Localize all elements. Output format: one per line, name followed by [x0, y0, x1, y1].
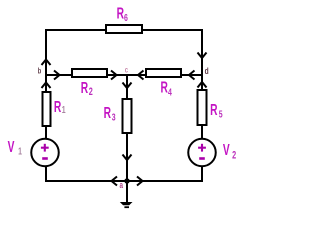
wire R2 to node c — [107, 74, 128, 76]
resistor R4 — [146, 69, 181, 77]
arrow left on bottom rail — [112, 177, 118, 186]
svg-text:R: R — [210, 101, 218, 119]
label R6 — [117, 5, 128, 24]
svg-text:V: V — [8, 138, 15, 156]
label R3 — [104, 104, 116, 123]
wire V2 to bottom rail — [201, 166, 203, 182]
svg-text:b: b — [38, 68, 41, 76]
node label a — [120, 180, 124, 190]
resistor R3 — [123, 99, 132, 133]
wire node d to R5 — [201, 74, 203, 90]
arrow up above node b — [42, 60, 51, 66]
svg-text:c: c — [125, 64, 128, 74]
arrow down below R3 — [123, 155, 132, 161]
resistor R5 — [198, 90, 207, 125]
source V1 — [31, 139, 59, 167]
arrow right after node b — [54, 71, 60, 80]
label V2 — [223, 141, 236, 161]
label R5 — [210, 101, 223, 120]
wire V1 to bottom rail — [45, 166, 47, 182]
svg-text:4: 4 — [168, 86, 172, 98]
arrow right on bottom rail — [137, 177, 143, 186]
svg-text:R: R — [117, 5, 125, 23]
ground — [120, 202, 133, 205]
svg-text:R: R — [161, 78, 169, 96]
arrow down on right vertical — [198, 53, 207, 59]
svg-text:d: d — [205, 66, 209, 76]
wire R3 to node a — [126, 133, 128, 181]
label R2 — [81, 79, 93, 97]
svg-text:1: 1 — [18, 145, 22, 157]
wire left vertical top — [45, 29, 47, 76]
node label c — [125, 64, 128, 74]
svg-text:a: a — [120, 180, 124, 190]
wire node b to R2 — [45, 74, 72, 76]
label R1 — [54, 98, 66, 116]
arrow left toward node d — [189, 71, 195, 80]
wire bottom rail — [45, 180, 203, 182]
label V1 — [8, 138, 22, 157]
svg-text:2: 2 — [89, 85, 93, 97]
resistor R2 — [72, 69, 107, 77]
svg-text:R: R — [81, 79, 89, 97]
wire R5 to V2 — [201, 125, 203, 139]
node a junction dot — [124, 178, 129, 183]
svg-text:2: 2 — [232, 149, 236, 161]
resistor R6 — [106, 25, 142, 33]
node label b — [38, 68, 41, 76]
arrow up below node d — [198, 82, 207, 88]
svg-text:R: R — [54, 98, 62, 116]
wire R1 to V1 — [45, 126, 47, 139]
svg-text:5: 5 — [219, 108, 223, 120]
wire top horizontal left segment — [45, 29, 106, 31]
wire node b to R1 — [45, 74, 47, 92]
wire node c to R3 — [126, 74, 128, 99]
arrow right before node c — [111, 71, 117, 80]
arrow down below node c — [123, 83, 132, 89]
wire node c to R4 — [126, 74, 146, 76]
svg-text:V: V — [223, 141, 230, 159]
source V2 — [188, 139, 216, 167]
node label d — [205, 66, 209, 76]
wire right vertical top — [201, 29, 203, 76]
label R4 — [161, 78, 172, 98]
wire node a to ground — [126, 180, 128, 202]
wire top horizontal right segment — [142, 29, 203, 31]
wire R4 to node d — [181, 74, 203, 76]
resistor R1 — [43, 92, 51, 126]
svg-text:1: 1 — [62, 104, 66, 116]
svg-text:R: R — [104, 104, 112, 122]
svg-text:3: 3 — [112, 111, 116, 123]
arrow up below node b — [42, 83, 51, 89]
svg-text:6: 6 — [124, 12, 128, 24]
arrow left from R4 toward node c — [138, 71, 144, 80]
